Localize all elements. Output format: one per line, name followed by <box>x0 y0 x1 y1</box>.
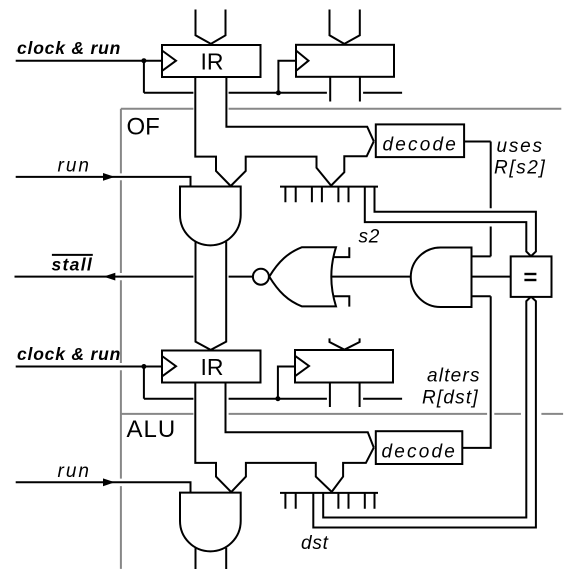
wire OF bus fanout lower edge <box>231 141 374 186</box>
wire clock drop row1 <box>143 61 145 93</box>
wire IR2 output bus left line <box>195 383 231 493</box>
bus funnel above register EX1 <box>330 10 360 44</box>
bus funnel above register IR1 <box>196 10 226 44</box>
comparator U3 = box <box>511 256 552 297</box>
wire ALU bus fanout lower edge <box>231 448 374 493</box>
wire run2 into G4 <box>16 482 191 492</box>
wire uses-R[s2] vertical <box>490 142 492 257</box>
tick marks s2 bus <box>285 187 348 203</box>
svg-text:decode: decode <box>382 441 458 462</box>
decode unit U2 (ALU) <box>376 431 463 464</box>
label equals sign <box>524 273 536 281</box>
wire dst tap outer <box>313 297 536 528</box>
svg-text:IR: IR <box>201 49 224 75</box>
arrowhead stall <box>104 273 116 281</box>
svg-text:IR: IR <box>201 354 224 380</box>
wire IR1 output bus right line <box>226 77 373 141</box>
nor gate G2 (stall-bar) body <box>269 247 336 306</box>
svg-text:run: run <box>58 155 91 176</box>
wire clock drop row2 <box>143 367 145 399</box>
node junction clock EX1 <box>276 90 281 95</box>
register EX2 clock pin <box>295 356 309 376</box>
arrowhead run2 <box>103 478 115 486</box>
wire EX2 output stubs <box>330 383 360 408</box>
wire G3 top input stub <box>472 255 491 257</box>
OF/ALU stage boundary gray vertical line <box>120 109 122 569</box>
wire dst tap inner <box>323 297 531 518</box>
node junction clock row2 <box>141 364 146 369</box>
wire s2 tap outer <box>365 187 531 257</box>
wire run1 into G1 <box>16 177 191 187</box>
wire clock distribution row1 <box>144 92 402 94</box>
node junction clock row1 <box>141 58 146 63</box>
and gate G4 (ALU stall gate) <box>180 493 241 552</box>
OF stage boundary gray horizontal line <box>121 108 561 110</box>
wire G3 bottom input stub <box>472 295 491 297</box>
svg-text:s2: s2 <box>359 227 381 248</box>
register IR2 clock pin <box>162 356 176 376</box>
wire clock riser to EX2 <box>278 367 295 399</box>
wire clock riser to EX1 <box>278 61 296 93</box>
wire G3 output to G2 <box>331 276 411 278</box>
wire clock&run row2 <box>16 366 162 368</box>
svg-text:clock & run: clock & run <box>17 344 121 364</box>
svg-text:R[s2]: R[s2] <box>494 158 546 179</box>
node junction clock EX2 <box>275 396 280 401</box>
wire clock&run row1 <box>16 60 162 62</box>
wire stall output <box>15 276 253 278</box>
wire s2 tap inner <box>375 187 536 257</box>
register EX1 <box>296 45 394 77</box>
svg-text:R[dst]: R[dst] <box>422 388 479 409</box>
wire G4 output bus stubs <box>196 548 227 569</box>
nor G2 top input hook <box>333 247 349 257</box>
decode unit U1 (OF) <box>376 124 464 157</box>
svg-text:stall: stall <box>52 254 94 274</box>
dst field tick bus bar (ALU) <box>280 492 378 494</box>
register IR1 clock pin <box>162 51 176 71</box>
wire alters-R[dst] vertical <box>462 296 490 448</box>
svg-text:uses: uses <box>497 136 544 157</box>
svg-text:decode: decode <box>383 135 459 156</box>
register IR1 <box>162 45 261 77</box>
register IR2 <box>162 351 261 383</box>
tick marks dst bus <box>285 493 374 509</box>
label stall overline <box>52 254 93 256</box>
and gate G1 (OF stall gate) <box>180 187 241 246</box>
svg-text:OF: OF <box>127 114 160 141</box>
svg-text:run: run <box>58 461 91 482</box>
register EX2 <box>295 350 393 383</box>
svg-text:clock & run: clock & run <box>17 38 121 58</box>
svg-text:ALU: ALU <box>127 416 177 443</box>
and gate G3 (hazard detect) <box>411 248 472 308</box>
wire IR1 output bus left line <box>195 77 230 186</box>
arrowhead run1 <box>103 173 115 181</box>
nor G2 bottom input hook <box>333 296 349 306</box>
wire comparator output to G3 <box>472 276 511 278</box>
wire IR2 output bus right line <box>226 383 374 448</box>
svg-text:alters: alters <box>427 366 481 387</box>
wire EX1 output stubs <box>330 77 360 102</box>
wire clock distribution row2 <box>144 398 402 400</box>
svg-text:dst: dst <box>301 533 329 554</box>
nor gate G2 output bubble <box>253 269 269 285</box>
funnel hat above register EX2 <box>330 338 360 349</box>
register EX1 clock pin <box>296 51 309 71</box>
ALU stage boundary gray horizontal line <box>121 413 563 415</box>
wire decode1 output <box>464 141 491 143</box>
wire G1 output bus <box>196 242 227 350</box>
s2 field tick bus bar (OF) <box>280 186 378 188</box>
